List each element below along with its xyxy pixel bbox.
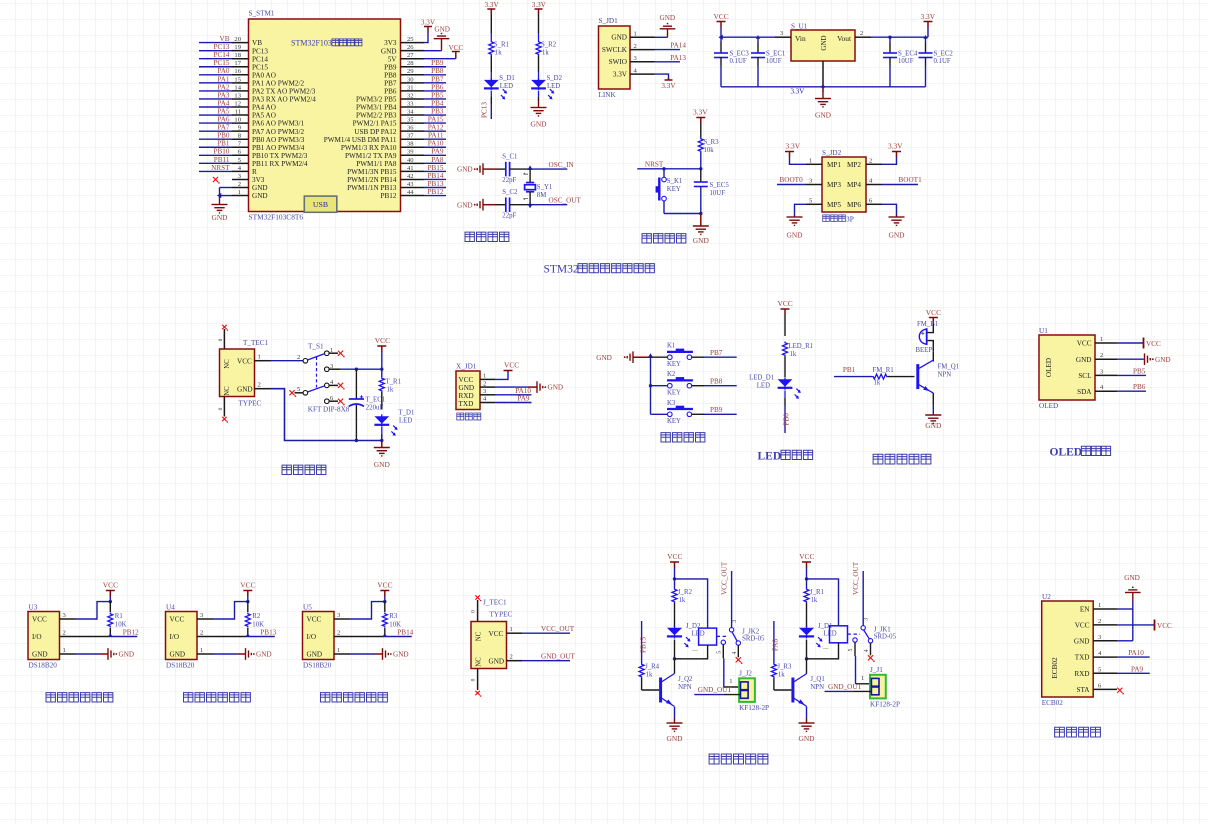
mcu pin 28 PB9 (384, 60, 424, 71)
pushbutton K1 KEY (651, 343, 693, 368)
svg-text:GND: GND (596, 354, 612, 362)
wire net PA6 (199, 116, 232, 124)
svg-text:VCC: VCC (926, 308, 941, 317)
svg-text:—: — (822, 646, 829, 652)
svg-text:2: 2 (63, 630, 66, 637)
svg-text:GND: GND (611, 34, 627, 42)
svg-text:1: 1 (200, 647, 203, 654)
wire bottom rail net 3.3V (721, 85, 926, 95)
power VCC U4 (240, 581, 255, 602)
regulator pin 2 Vout (855, 30, 871, 37)
svg-text:J_Q1: J_Q1 (810, 676, 824, 683)
svg-text:PA10: PA10 (428, 140, 444, 148)
svg-text:USB DP PA12: USB DP PA12 (354, 128, 397, 136)
svg-text:4: 4 (732, 651, 738, 654)
connector J S_JD2 jumper (822, 149, 866, 212)
svg-text:VCC_OUT: VCC_OUT (852, 561, 860, 595)
svg-text:GND: GND (925, 421, 942, 430)
svg-text:3.3V: 3.3V (786, 142, 801, 151)
power VCC bluetooth (1117, 620, 1172, 631)
svg-text:PA3: PA3 (217, 91, 230, 99)
svg-text:27: 27 (407, 52, 414, 59)
junction OSC_IN (528, 165, 533, 169)
regulator pin 1 GND stem (822, 61, 824, 87)
mcu pin 3 3V3 (232, 173, 265, 184)
U2 pin 1 EN (1080, 602, 1117, 614)
T_TEC1 top shield pin (218, 325, 228, 349)
T_TEC1 pin 1 VCC (255, 354, 304, 361)
wire net OSC_OUT (530, 196, 581, 204)
svg-text:2: 2 (483, 380, 486, 387)
module U5 DS18B20 (303, 604, 335, 670)
svg-text:10K: 10K (115, 622, 127, 629)
svg-text:PB11: PB11 (214, 156, 230, 164)
svg-text:PC15: PC15 (214, 59, 230, 67)
power VCC led lamp (778, 299, 793, 336)
module U2 ECB02 bluetooth (1042, 593, 1094, 707)
svg-text:KFT DIP-8X8: KFT DIP-8X8 (308, 406, 350, 414)
svg-text:2: 2 (1100, 352, 1103, 359)
svg-text:PB6: PB6 (384, 88, 397, 96)
power 3.3V S_JD2 pin2 (882, 142, 903, 165)
mcu pin 33 PWM3/1 PB4 (356, 100, 424, 111)
svg-text:2: 2 (238, 181, 241, 188)
svg-text:PA5 AO: PA5 AO (252, 112, 276, 120)
svg-text:PA5: PA5 (217, 107, 230, 115)
svg-text:NC: NC (476, 657, 483, 667)
mcu pin 17 PC15 (232, 60, 268, 71)
mcu pin 29 PB8 (384, 68, 424, 79)
svg-text:VB: VB (220, 35, 230, 43)
wire relay common to J_J1 pin1 (855, 642, 871, 684)
svg-text:PB9: PB9 (384, 63, 397, 71)
svg-text:GND: GND (1074, 637, 1090, 645)
wire net PA1 (199, 75, 232, 83)
svg-text:17: 17 (234, 60, 241, 67)
svg-text:PB15: PB15 (639, 637, 647, 653)
svg-text:DS18B20: DS18B20 (166, 662, 195, 670)
mcu pin 25 3V3 (384, 36, 424, 47)
svg-text:1k: 1k (874, 380, 881, 387)
mcu pin 16 PA0 AO (232, 68, 276, 79)
connector S_JD2 pins 1/2 MP1/MP2 (806, 158, 882, 169)
svg-text:2: 2 (337, 630, 340, 637)
svg-text:PA7 AO PWM3/2: PA7 AO PWM3/2 (252, 128, 304, 136)
svg-text:NC: NC (224, 386, 231, 396)
svg-text:PA0 AO: PA0 AO (252, 71, 276, 79)
svg-text:VCC: VCC (504, 361, 519, 370)
svg-text:10UF: 10UF (766, 58, 782, 65)
svg-text:S_EC1: S_EC1 (766, 51, 785, 58)
svg-text:T_D1: T_D1 (399, 410, 415, 417)
capacitor S_EC3 0.1UF (714, 37, 749, 87)
svg-text:VCC: VCC (1075, 622, 1090, 630)
svg-text:1k: 1k (495, 50, 502, 57)
connector S_JD1 pin 3 SWIO (609, 55, 655, 66)
svg-text:26: 26 (407, 44, 414, 51)
svg-text:ECB02: ECB02 (1042, 699, 1064, 707)
svg-text:10UF: 10UF (710, 190, 726, 197)
wire net PA3 (199, 91, 232, 99)
svg-text:J_JK2: J_JK2 (742, 628, 760, 635)
svg-text:0: 0 (218, 407, 224, 410)
svg-text:PWM2/2 PB3: PWM2/2 PB3 (356, 112, 397, 120)
svg-text:3V3: 3V3 (252, 176, 265, 184)
connector J J_TEC1 TYPEC (471, 599, 512, 669)
svg-text:3V3: 3V3 (384, 39, 397, 47)
svg-text:J_R4: J_R4 (645, 664, 660, 671)
svg-text:NRST: NRST (645, 160, 664, 168)
ground GND S_D2 (530, 91, 547, 129)
svg-text:GND: GND (815, 111, 832, 120)
OLED pin 4 SDA (1077, 384, 1117, 396)
svg-text:BOOT0: BOOT0 (780, 176, 804, 184)
svg-text:PWM1/3N PB15: PWM1/3N PB15 (347, 168, 397, 176)
wire U3 pin3 to VCC (76, 600, 113, 619)
svg-text:LINK: LINK (599, 91, 617, 99)
svg-text:LED: LED (500, 83, 513, 90)
svg-text:1: 1 (861, 675, 864, 682)
mcu pin 12 PA4 AO (232, 100, 276, 111)
wire net PB11 (199, 156, 232, 164)
svg-text:40: 40 (407, 157, 414, 164)
svg-text:GND_OUT: GND_OUT (541, 653, 576, 661)
svg-text:PB1: PB1 (843, 366, 856, 374)
svg-text:PWM1/4 USB DM PA11: PWM1/4 USB DM PA11 (324, 136, 397, 144)
usb connector box on mcu (304, 196, 337, 212)
wire net PC13 (vertical) (481, 91, 492, 119)
relay coil J_JK1 SRD-05 (807, 626, 861, 659)
svg-text:10k: 10k (704, 147, 715, 154)
svg-text:GND: GND (820, 35, 828, 50)
crystal S_Y1 8M (523, 169, 552, 205)
resistor R3 10K pullup (382, 602, 401, 637)
svg-text:VB: VB (252, 39, 262, 47)
power 3.3V S_R1 column (485, 1, 500, 14)
wire net PB14 (424, 172, 446, 180)
svg-text:PB9: PB9 (710, 406, 723, 414)
wire Vout rail (871, 35, 928, 39)
capacitor S_C2 22pF (497, 189, 530, 219)
OLED pin 1 VCC (1077, 336, 1117, 348)
wire net PA9 X_JD1 (496, 395, 532, 403)
wire net PA8 (vertical) (772, 621, 780, 663)
svg-text:U5: U5 (303, 604, 312, 612)
svg-text:220uF: 220uF (366, 405, 384, 412)
svg-text:36: 36 (407, 125, 414, 132)
svg-text:GND: GND (786, 231, 803, 240)
svg-text:GND_OUT: GND_OUT (698, 686, 733, 694)
svg-text:1: 1 (634, 31, 637, 38)
wire net VB (199, 35, 232, 43)
svg-text:SRD-05: SRD-05 (874, 634, 897, 641)
power 3.3V output (921, 12, 936, 37)
U2 pin 5 RXD (1074, 666, 1117, 678)
wire net PB15 (424, 164, 446, 172)
svg-text:PA1 AO PWM2/2: PA1 AO PWM2/2 (252, 79, 304, 87)
svg-text:PA3 RX AO PWM2/4: PA3 RX AO PWM2/4 (252, 96, 316, 104)
svg-text:LED: LED (757, 382, 770, 389)
svg-text:3: 3 (732, 620, 738, 623)
svg-text:2: 2 (860, 30, 863, 37)
svg-text:VCC: VCC (377, 581, 392, 590)
svg-text:T_TEC1: T_TEC1 (243, 339, 269, 347)
svg-text:1: 1 (337, 647, 340, 654)
wire net PB14 (350, 629, 414, 637)
mcu pin 14 PA2 TX AO PWM2/3 (232, 84, 316, 95)
svg-text:KEY: KEY (667, 418, 681, 425)
svg-text:GND: GND (457, 166, 473, 174)
svg-text:I/O: I/O (307, 633, 317, 641)
svg-text:PB0: PB0 (783, 413, 791, 426)
mcu pin 30 PB7 (384, 76, 424, 87)
svg-text:2: 2 (258, 382, 261, 389)
svg-text:S_Y1: S_Y1 (537, 184, 553, 191)
svg-text:PWM3/2 PB5: PWM3/2 PB5 (356, 96, 397, 104)
svg-text:MP2: MP2 (847, 161, 861, 169)
wire mcu pins 1-2 to GND (217, 188, 232, 199)
ground GND OLED (1117, 353, 1171, 365)
svg-text:PB8: PB8 (384, 71, 397, 79)
svg-text:U2: U2 (1042, 593, 1051, 601)
svg-text:3.3V: 3.3V (613, 71, 628, 79)
svg-text:R2: R2 (252, 613, 261, 620)
svg-text:1k: 1k (542, 50, 549, 57)
svg-text:PB8: PB8 (710, 378, 723, 386)
mcu pin 44 PB12 (381, 189, 424, 200)
svg-text:U1: U1 (1039, 327, 1048, 335)
svg-text:2: 2 (510, 654, 513, 661)
svg-text:22pF: 22pF (502, 213, 516, 220)
svg-text:PB4: PB4 (431, 99, 444, 107)
mcu pin 37 PWM1/4 USB DM PA11 (324, 133, 424, 144)
svg-text:SDA: SDA (1077, 388, 1092, 396)
svg-text:10: 10 (234, 117, 241, 124)
svg-text:PWM1/1N PB13: PWM1/1N PB13 (347, 184, 397, 192)
U3 pin 1 (60, 647, 76, 654)
wire U4 pin3 to VCC (213, 600, 250, 619)
svg-text:PA15: PA15 (428, 116, 444, 124)
switch pin5 nc (289, 390, 303, 397)
resistor J_R2 1k (672, 579, 693, 627)
wire net PA7 (199, 124, 232, 132)
pushbutton K2 KEY (651, 371, 693, 396)
connector S_JD1 pin 1 GND (611, 31, 654, 42)
svg-text:2: 2 (297, 354, 300, 361)
svg-text:VCC: VCC (103, 581, 118, 590)
svg-text:S_R2: S_R2 (541, 42, 557, 49)
svg-text:S_C1: S_C1 (502, 154, 517, 161)
svg-text:1k: 1k (387, 387, 394, 394)
svg-text:K2: K2 (667, 371, 676, 378)
wire net PB6 (1117, 383, 1146, 391)
svg-text:S_C2: S_C2 (502, 189, 518, 196)
ground GND bluetooth top (1124, 574, 1140, 601)
svg-text:—: — (691, 648, 698, 654)
caption bluetooth module (1055, 727, 1101, 737)
svg-text:NRST: NRST (211, 164, 230, 172)
svg-text:FM_B1: FM_B1 (917, 321, 938, 328)
svg-text:LED: LED (758, 451, 782, 463)
wire S_R1 to S_D1 (490, 56, 492, 73)
svg-text:PB6: PB6 (431, 83, 444, 91)
svg-text:GND: GND (32, 651, 48, 659)
wire net PA2 (199, 83, 232, 91)
svg-text:FM_R1: FM_R1 (873, 367, 894, 374)
U2 pin 6 STA (1076, 682, 1117, 694)
svg-text:1: 1 (729, 678, 732, 685)
mcu pin 18 PC14 (232, 52, 268, 63)
svg-text:S_EC5: S_EC5 (710, 182, 730, 189)
svg-text:4: 4 (864, 649, 870, 652)
svg-text:S_JD2: S_JD2 (822, 149, 842, 157)
svg-text:2: 2 (1098, 618, 1101, 625)
svg-text:SWIO: SWIO (609, 58, 627, 66)
led J_D1 LED (799, 623, 837, 661)
svg-text:PA6 AO PWM3/1: PA6 AO PWM3/1 (252, 120, 304, 128)
wire net GND_OUT (507, 653, 576, 661)
svg-text:STM32F103C8T6: STM32F103C8T6 (249, 213, 304, 222)
svg-text:PA4: PA4 (217, 99, 230, 107)
svg-text:RXD: RXD (459, 392, 474, 400)
no-connect U2 STA (1117, 688, 1124, 695)
mcu pin 34 PWM2/2 PB3 (356, 108, 424, 119)
svg-text:GND: GND (434, 26, 450, 34)
power 3.3V S_JD1 pin4 (655, 74, 677, 90)
caption reset circuit (642, 234, 686, 243)
connector S_JD2 pins 5/6 MP5/MP6 (806, 198, 882, 209)
mcu pin 15 PA1 AO PWM2/2 (232, 76, 304, 87)
svg-text:J_TEC1: J_TEC1 (483, 599, 507, 607)
svg-text:J_R3: J_R3 (777, 664, 792, 671)
svg-text:MP1: MP1 (827, 161, 841, 169)
U2 pin 4 TXD (1075, 650, 1117, 662)
svg-text:1k: 1k (790, 351, 797, 358)
svg-text:VCC: VCC (1157, 622, 1172, 630)
J_TEC1 bottom shield pin (471, 669, 482, 697)
wire net PA14 (655, 42, 687, 50)
module U1 OLED (1039, 327, 1095, 410)
svg-text:U3: U3 (29, 604, 38, 612)
svg-text:KEY: KEY (667, 361, 681, 368)
svg-text:PA11: PA11 (428, 132, 444, 140)
svg-text:38: 38 (407, 141, 414, 148)
wire 3.3V to S_R2 (538, 14, 540, 34)
mcu pin 41 PWM1/3N PB15 (347, 165, 424, 176)
svg-text:1k: 1k (778, 672, 785, 679)
svg-text:PA2: PA2 (217, 83, 230, 91)
svg-text:PA6: PA6 (217, 116, 230, 124)
svg-text:VCC: VCC (32, 616, 47, 624)
svg-text:FM_Q1: FM_Q1 (938, 364, 960, 371)
svg-text:PB9: PB9 (431, 59, 444, 67)
svg-text:41: 41 (407, 165, 414, 172)
mcu pin 11 PA5 AO (232, 108, 276, 119)
svg-text:ECB02: ECB02 (1051, 657, 1059, 679)
wire net PB10 (199, 148, 232, 156)
wire U2 EN/GND trunk (1117, 601, 1133, 641)
svg-text:LED: LED (399, 418, 412, 425)
wire net GND_OUT (825, 683, 872, 692)
resistor T_R1 1k (379, 369, 401, 409)
svg-text:GND: GND (798, 734, 815, 743)
wire net PB3 (424, 107, 446, 115)
U5 pin 1 (334, 647, 350, 654)
wire net PB6 (424, 83, 446, 91)
svg-text:1: 1 (1100, 336, 1103, 343)
svg-text:DS18B20: DS18B20 (29, 662, 58, 670)
svg-text:1: 1 (63, 647, 66, 654)
resistor J_R4 1k (639, 663, 660, 690)
svg-text:PB13: PB13 (260, 629, 276, 637)
svg-text:KF128-2P: KF128-2P (739, 704, 769, 712)
wire net BOOT0 (777, 176, 806, 184)
svg-text:43: 43 (407, 181, 414, 188)
ground GND buzzer (925, 393, 942, 430)
svg-text:PB12: PB12 (123, 629, 139, 637)
transistor FM_Q1 NPN (918, 351, 959, 393)
svg-text:39: 39 (407, 149, 414, 156)
svg-text:SRD-05: SRD-05 (742, 636, 765, 643)
svg-text:U4: U4 (166, 604, 175, 612)
svg-text:VCC: VCC (375, 336, 390, 345)
wire net PA10 (424, 140, 446, 148)
capacitor S_EC5 10UF (694, 169, 730, 215)
connector J_J2 KF128-2P (739, 669, 769, 712)
J_TEC1 top shield pin (471, 595, 482, 621)
resistor FM_R1 1k (834, 367, 915, 387)
svg-text:33: 33 (407, 100, 414, 107)
wire net PA9 bluetooth (1117, 665, 1150, 673)
relay switch J_JK1 (848, 571, 896, 652)
svg-text:35: 35 (407, 117, 414, 124)
svg-text:GND: GND (666, 734, 683, 743)
ground GND crystal row S_C2 (457, 199, 497, 211)
svg-text:VCC: VCC (240, 581, 255, 590)
U2 pin 2 VCC (1075, 618, 1117, 630)
svg-text:28: 28 (407, 60, 414, 67)
svg-text:GND: GND (660, 14, 676, 22)
svg-text:0: 0 (471, 678, 477, 681)
ground GND mcu pin26 (424, 26, 450, 51)
power VCC input (714, 12, 729, 28)
svg-text:LED_D1: LED_D1 (749, 374, 774, 381)
mcu pin 27 5V (388, 52, 424, 63)
svg-text:S_EC2: S_EC2 (934, 51, 954, 58)
svg-text:3.3V: 3.3V (532, 1, 547, 9)
ground GND U5 (350, 648, 409, 660)
svg-text:TXD: TXD (1075, 654, 1090, 662)
caption temperature module U3 (46, 693, 113, 702)
svg-text:3.3V: 3.3V (693, 108, 708, 117)
no-connect relay throw J_JK2 pin4 (736, 645, 743, 664)
svg-text:GND: GND (119, 651, 135, 659)
ground GND U3 (76, 648, 135, 660)
svg-text:KF128-2P: KF128-2P (870, 700, 900, 708)
wire net PB0 (vertical) (783, 391, 791, 434)
svg-text:1: 1 (1098, 602, 1101, 609)
svg-text:KEY: KEY (667, 186, 681, 193)
svg-text:3.3V: 3.3V (485, 1, 500, 9)
capacitor T_EC1 220uF (349, 369, 385, 440)
wire net PA12 (424, 124, 446, 132)
svg-text:VCC_OUT: VCC_OUT (541, 625, 575, 633)
svg-text:PA13: PA13 (670, 54, 686, 62)
wire net PA9 (424, 148, 446, 156)
caption key circuit (661, 433, 705, 442)
capacitor S_EC4 10UF (883, 37, 918, 87)
wire net PB4 (424, 99, 446, 107)
